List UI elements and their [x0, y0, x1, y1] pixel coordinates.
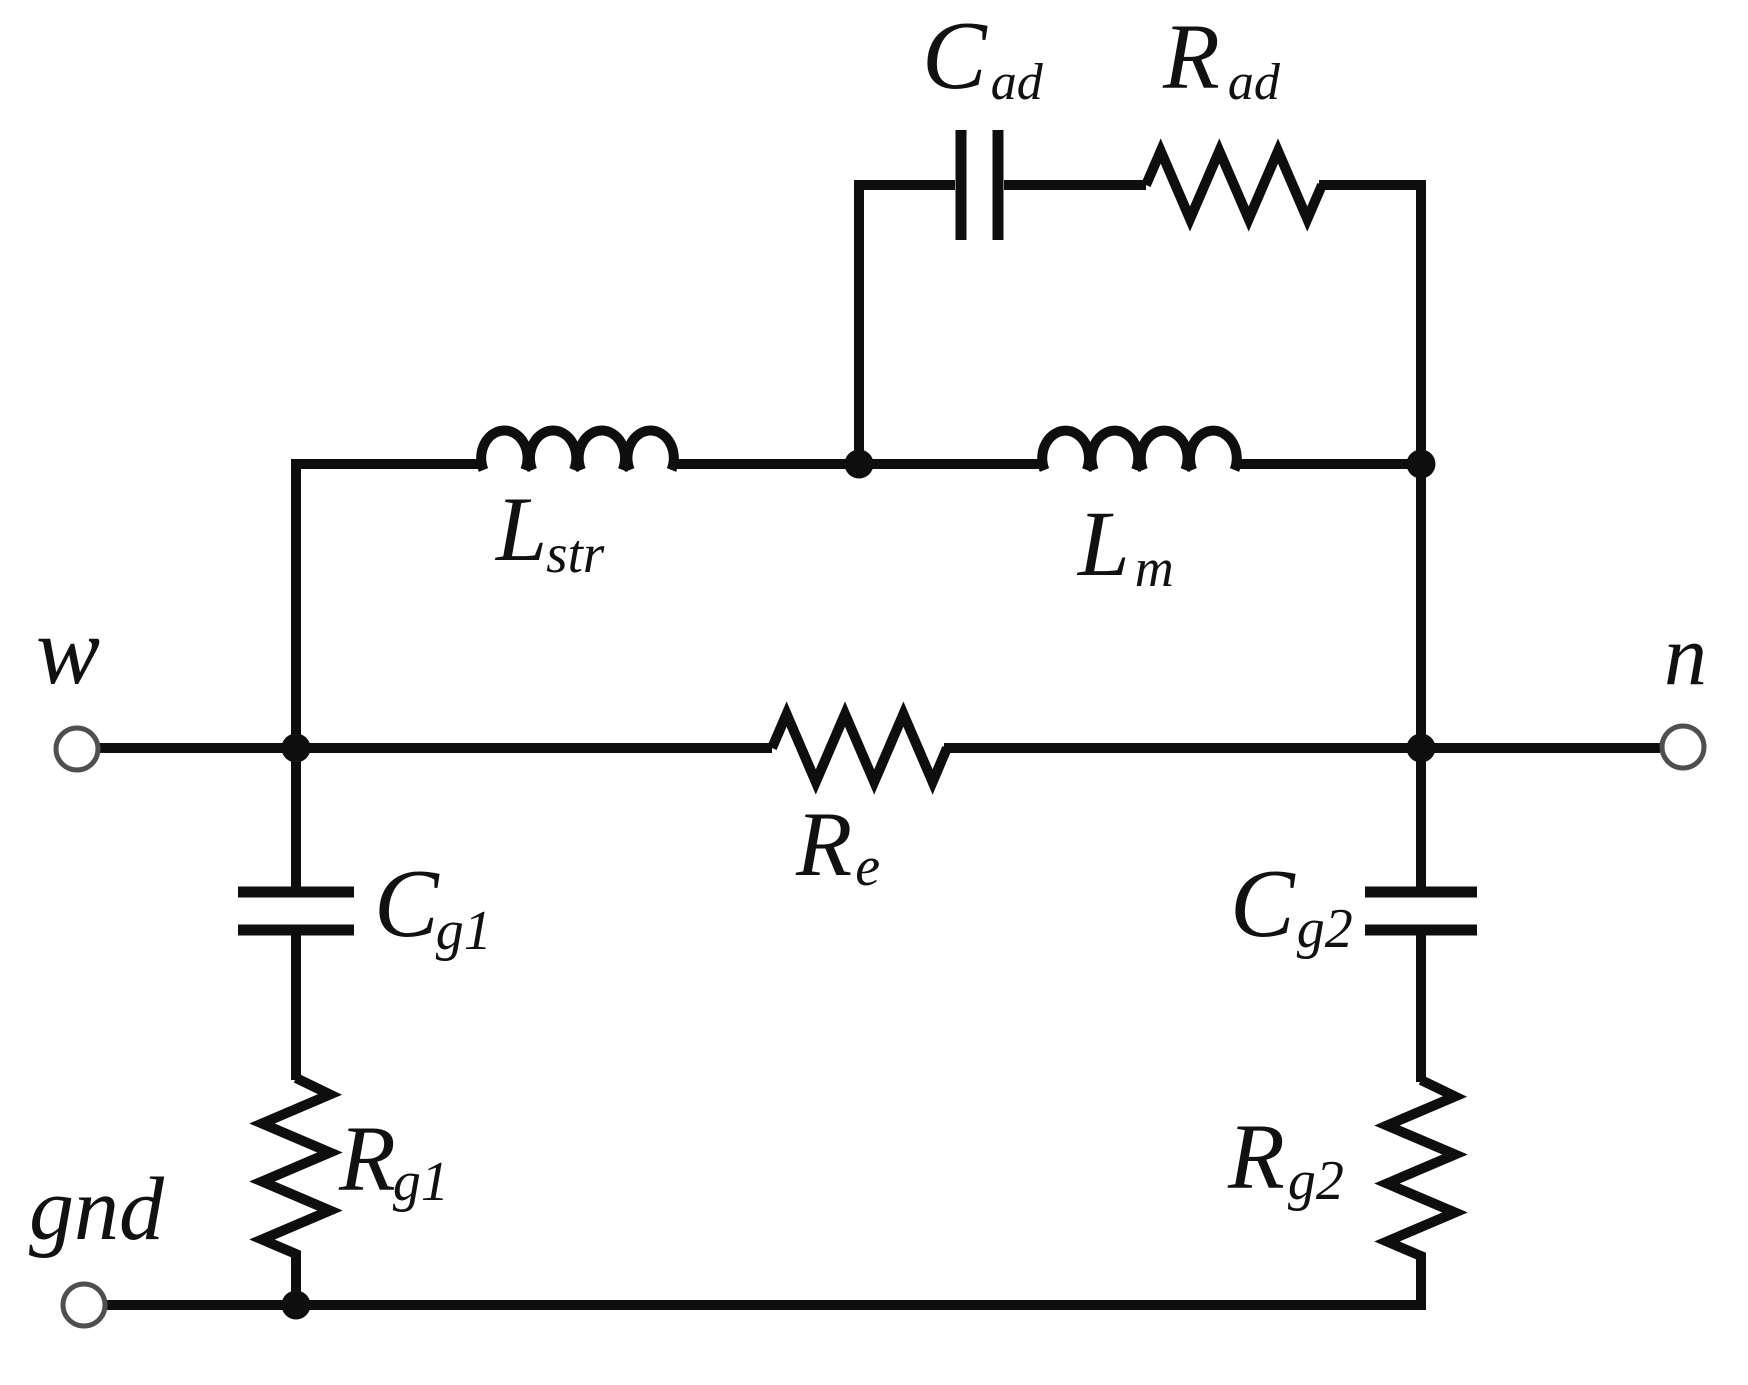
capacitor Cg1	[238, 892, 354, 930]
capacitor Cg2	[1365, 892, 1477, 930]
wire: right vertical between Cg2 and Rg2	[1416, 935, 1426, 1082]
wire: top rail right of Rad joining right vertical	[1319, 185, 1421, 887]
wire: left vertical between Cg1 and Rg1	[291, 935, 301, 1080]
node E: junction main wire / right branch	[1407, 734, 1436, 763]
inductor Lstr	[481, 431, 674, 470]
node B: junction of gnd rail / left branch	[282, 1291, 311, 1320]
resistor Rad	[1146, 151, 1322, 219]
resistor Rg1	[262, 1078, 330, 1305]
wire: mid vertical and top rail left of Cad	[859, 185, 955, 464]
node D: junction Lm / right vertical	[1407, 450, 1436, 479]
resistor Re	[772, 714, 947, 782]
inductor Lm	[1042, 431, 1237, 470]
wire: horizontal between Lstr and mid node	[675, 459, 859, 469]
wire: horizontal between mid node and Lm	[859, 459, 1041, 469]
capacitor Cad	[961, 130, 998, 240]
wire: horizontal between Lm and right node	[1238, 459, 1421, 469]
wire: main horizontal left segment (w terminal to Re)	[99, 743, 772, 753]
node C: junction Lstr / Lm / Cad branch	[845, 450, 874, 479]
wire: top rail between Cad and Rad	[1004, 180, 1146, 190]
resistor Rg2	[1387, 1080, 1455, 1306]
node A: junction of w wire / left branch	[282, 734, 311, 763]
terminal gnd (circle)	[63, 1284, 105, 1326]
svg-text:w: w	[36, 597, 100, 704]
wire: bottom rail (gnd to right branch)	[106, 1256, 1421, 1305]
terminal n (circle)	[1662, 726, 1704, 768]
wire: left vertical branch upper (node w-junction up to Lstr wire)	[296, 464, 480, 887]
svg-text:n: n	[1664, 607, 1707, 703]
terminal w (circle)	[56, 728, 98, 770]
wire: main horizontal right segment (Re to n terminal)	[944, 743, 1660, 753]
svg-text:gnd: gnd	[29, 1160, 165, 1259]
